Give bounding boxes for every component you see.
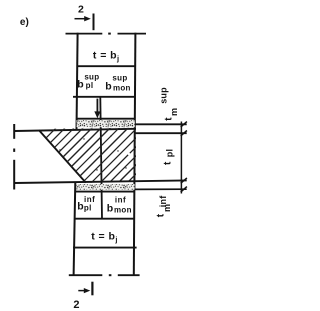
beam bottom line (left span + joint bottom + right) <box>15 180 187 183</box>
beam top line (left span + under column) <box>15 129 136 131</box>
dim tick at topping top <box>181 122 187 127</box>
lower column left edge <box>74 182 76 276</box>
right beam topping top line <box>135 123 187 125</box>
middle divider line (through arrow box, joint, inf box) <box>100 97 102 219</box>
inf box bottom line <box>75 218 135 220</box>
bottom column cut chain line <box>69 274 103 276</box>
line under upper t=bj cell <box>77 65 135 67</box>
line under b^sup labels row <box>73 96 135 98</box>
dimension line (right, vertical) <box>180 122 182 194</box>
dim tick at slab bottom <box>181 178 187 183</box>
joint hatching <box>0 122 206 186</box>
lower t=bj cell bottom line <box>73 247 137 249</box>
section mark 2 (bottom): tick bar <box>91 282 93 296</box>
bottom stipple band (bedding at joint) <box>76 184 134 190</box>
load arrow (down) <box>96 99 98 113</box>
svg-text:2: 2 <box>78 4 84 16</box>
dim tick at soffit line <box>181 187 187 192</box>
svg-text:t = bj: t = bj <box>91 230 118 244</box>
svg-text:sup: sup <box>158 87 168 104</box>
svg-text:t = bj: t = bj <box>93 49 120 63</box>
top column cut chain line <box>66 33 103 35</box>
svg-text:m: m <box>169 108 179 116</box>
upper column left edge <box>77 33 78 130</box>
svg-text:2: 2 <box>73 299 79 311</box>
top stipple band (cast topping at joint) <box>77 120 135 127</box>
section mark 2 (top): arrow <box>75 18 86 20</box>
beam left end chain line <box>13 124 15 139</box>
chamfer diagonal of joint <box>39 130 86 182</box>
svg-text:inf: inf <box>158 195 168 208</box>
inf box top line <box>75 191 135 193</box>
column base line <box>77 118 136 120</box>
column right edge (full height) <box>134 33 136 276</box>
section mark 2 (bottom): arrow <box>78 290 84 292</box>
svg-text:pl: pl <box>165 149 175 157</box>
right soffit second line <box>135 188 187 190</box>
section mark 2 (top): tick bar <box>93 14 95 31</box>
svg-text:e): e) <box>20 17 29 28</box>
dim tick at topping bottom <box>181 131 187 136</box>
right topping bottom line <box>135 132 187 134</box>
